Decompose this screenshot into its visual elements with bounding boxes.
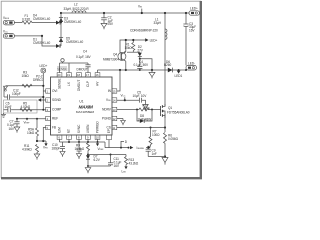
connector J1 VBUS <box>3 16 14 25</box>
FB junction row <box>37 140 46 142</box>
junction R6 bottom <box>164 155 166 157</box>
column from LED+ down <box>42 73 44 110</box>
VCC net flag (pin14) <box>121 93 126 100</box>
LED1 indicator <box>175 69 183 78</box>
svg-text:FB: FB <box>52 126 56 130</box>
svg-text:4.99kΩ: 4.99kΩ <box>22 148 32 152</box>
junction node R3 <box>42 85 44 87</box>
svg-text:33μH, 5022-220-R: 33μH, 5022-220-R <box>64 7 90 11</box>
junction C11 top <box>110 154 112 156</box>
svg-text:SYNC: SYNC <box>77 124 81 133</box>
riser pin19 <box>68 63 70 73</box>
pin boxes right (15-11) <box>112 89 117 130</box>
svg-text:43.2kΩ: 43.2kΩ <box>129 161 139 165</box>
resistor R13 <box>124 155 127 170</box>
svg-text:PGND: PGND <box>102 117 112 121</box>
diode D4 (horizontal) <box>56 21 60 25</box>
connector LED+ (mid) <box>40 64 48 73</box>
drain column wire (L1 to Q1 drain) <box>164 13 166 106</box>
junction rail dots <box>68 141 70 143</box>
REF row wire <box>17 118 46 120</box>
D-net row <box>105 140 133 150</box>
svg-text:EP: EP <box>107 129 111 133</box>
wire LED+ row (Q4 top) <box>120 40 147 53</box>
capacitor C2 <box>101 13 107 23</box>
svg-text:0.1μF, 50V: 0.1μF, 50V <box>134 63 150 67</box>
resistor R11 <box>36 144 39 154</box>
svg-text:PWRGD: PWRGD <box>96 121 100 134</box>
resistor R9 <box>87 142 90 155</box>
svg-text:CMSSH1-40: CMSSH1-40 <box>33 17 50 21</box>
svg-text:1nF: 1nF <box>152 152 157 156</box>
node column wire <box>60 13 62 46</box>
border frame <box>1 1 202 179</box>
svg-text:27V: 27V <box>137 49 143 53</box>
R3 row wire <box>6 85 44 87</box>
capacitor C11 <box>88 155 113 167</box>
resistor R7 column <box>148 128 152 150</box>
junction CS nodes <box>150 127 152 129</box>
svg-text:DMOUT: DMOUT <box>77 67 88 71</box>
IC pin labels right <box>102 89 112 130</box>
svg-text:LED1: LED1 <box>175 74 183 78</box>
capacitor C8 (pin8) <box>76 142 81 159</box>
net flag VREF (bottom) <box>96 142 104 151</box>
resistor R5 (inline) <box>20 108 32 111</box>
capacitor C12 row <box>4 87 43 100</box>
NDRV row wire <box>117 109 139 111</box>
terminal circle on sense wire <box>61 59 64 63</box>
capacitor C5 (inline) <box>139 98 145 105</box>
wire riser pin15 (IN) <box>117 70 120 91</box>
ground arrow under C7 <box>14 127 20 133</box>
junction C4 bottom <box>139 69 141 71</box>
connector LED+ (top right) <box>189 6 199 15</box>
svg-text:100pF: 100pF <box>12 92 21 96</box>
pin numbers top <box>58 73 99 77</box>
svg-text:LED-: LED- <box>188 61 195 65</box>
wire Q4 collector down <box>125 61 127 70</box>
ground arrow under C5 <box>143 104 149 110</box>
pin numbers bottom <box>59 136 100 140</box>
COMP row wire <box>4 109 46 111</box>
top rail wire <box>61 12 190 14</box>
svg-text:MMBT3904: MMBT3904 <box>103 58 119 62</box>
svg-text:NDRV: NDRV <box>102 108 112 112</box>
svg-text:L2: L2 <box>74 3 78 7</box>
diode D5 (vertical) <box>59 38 63 42</box>
junction C3 top <box>185 12 187 14</box>
capacitor C3 (electrolytic) <box>183 13 188 65</box>
junction node C12 <box>42 96 44 98</box>
svg-text:LED+: LED+ <box>150 38 158 42</box>
MOSFET Q1 <box>161 104 165 118</box>
inductor L1 (vertical on drain column) <box>165 29 167 40</box>
IC pin labels top (vertical) <box>58 79 100 91</box>
svg-text:CMSSH1-40: CMSSH1-40 <box>64 20 81 24</box>
junction node R5A <box>36 118 38 120</box>
svg-text:SENSE: SENSE <box>57 67 67 71</box>
pin1 elbow <box>43 90 45 92</box>
svg-text:16V: 16V <box>189 28 195 32</box>
wire F1 to node <box>32 22 61 24</box>
diode D6 <box>168 68 173 73</box>
svg-text:FDT55AN06LA0: FDT55AN06LA0 <box>167 110 190 114</box>
svg-text:1N4148W: 1N4148W <box>138 117 152 121</box>
svg-text:10μF, 10V: 10μF, 10V <box>133 94 148 98</box>
svg-text:16V: 16V <box>9 127 15 131</box>
svg-text:Q4: Q4 <box>113 52 117 56</box>
svg-text:CMSSH1-40: CMSSH1-40 <box>33 41 50 45</box>
EP stub <box>108 140 110 148</box>
svg-text:CDRH6SMRNP-220: CDRH6SMRNP-220 <box>130 29 158 33</box>
resistor R6 <box>164 133 167 157</box>
net flag VREF (left) <box>24 119 31 125</box>
inductor L2 <box>72 11 86 13</box>
transistor Q4 <box>118 51 126 61</box>
RC box (compensation) <box>4 100 38 113</box>
svg-text:C4: C4 <box>83 50 87 54</box>
pin numbers right <box>113 89 116 129</box>
resistor R3 <box>22 84 32 87</box>
svg-text:CMSSH1-40: CMSSH1-40 <box>66 40 83 44</box>
diode D1 (horizontal) <box>56 44 60 48</box>
capacitor C10 <box>60 142 65 157</box>
sense wire above IC <box>60 62 89 64</box>
resistor R1 <box>132 40 135 52</box>
svg-text:CS: CS <box>107 126 111 130</box>
pin boxes top (20-16) <box>57 73 100 77</box>
bottom rail wire <box>60 141 106 143</box>
svg-text:SENSE: SENSE <box>58 79 62 89</box>
svg-text:12: 12 <box>113 117 116 121</box>
pin boxes left (1-5) <box>46 89 51 130</box>
svg-text:13: 13 <box>113 108 116 112</box>
svg-text:B260: B260 <box>164 63 171 67</box>
svg-text:17: 17 <box>86 73 89 77</box>
svg-text:6.2V: 6.2V <box>94 158 101 162</box>
svg-text:ILIM: ILIM <box>58 127 62 133</box>
PGND stub + ground <box>117 119 126 126</box>
svg-text:U1: U1 <box>79 99 83 103</box>
svg-text:LED+: LED+ <box>40 64 48 68</box>
net label SENSE <box>57 67 67 71</box>
IC pin labels bottom (vertical) <box>58 121 112 134</box>
svg-text:CLP: CLP <box>86 81 90 87</box>
node at VCC corner <box>41 35 43 37</box>
svg-text:18: 18 <box>77 73 80 77</box>
diode D3 (vertical, on node column) <box>59 18 63 22</box>
pin5 elbow <box>43 128 45 142</box>
connector J2 VCC <box>3 30 14 39</box>
net stub VFB <box>43 141 48 150</box>
resistor R10 (inline) <box>139 108 149 111</box>
svg-text:REF: REF <box>52 117 58 121</box>
net flag ISENSE <box>137 146 151 150</box>
svg-text:19: 19 <box>67 73 70 77</box>
pin boxes bottom (6-10) <box>57 135 100 139</box>
ground arrow under R11 <box>34 154 40 160</box>
Q1 source column <box>164 114 166 132</box>
net stub LED+ <box>145 38 157 42</box>
svg-text:LED+: LED+ <box>190 6 198 10</box>
junction FB node <box>36 140 38 142</box>
svg-text:10kΩ: 10kΩ <box>27 131 35 135</box>
svg-text:DRBC0: DRBC0 <box>33 78 44 82</box>
svg-text:15: 15 <box>113 89 116 93</box>
zener D2 <box>138 53 142 57</box>
ground terminal left of R3 <box>4 86 8 91</box>
svg-text:20: 20 <box>58 73 61 77</box>
IC U1 body <box>51 77 113 135</box>
stubs pins 6-10 <box>59 139 61 142</box>
svg-text:25V: 25V <box>108 22 114 26</box>
diode D8 bypass <box>137 110 152 124</box>
pin EP box <box>107 135 112 140</box>
svg-text:16V: 16V <box>114 164 120 168</box>
fuse F1 (resistor) <box>22 21 32 24</box>
ground under RC box <box>1 113 6 117</box>
IN rail wire (y70) <box>98 69 187 71</box>
wire VBUS to F1 <box>14 22 22 24</box>
svg-text:MAX1858EM: MAX1858EM <box>76 110 95 114</box>
junction node C7 <box>16 118 18 120</box>
pin numbers left <box>47 89 49 129</box>
wire Q4 emitter up <box>125 40 127 52</box>
connector LED- <box>186 61 196 70</box>
svg-text:33μH: 33μH <box>154 21 162 25</box>
wire riser pin16 <box>97 70 99 73</box>
net flag VIN <box>138 5 143 15</box>
svg-text:DMOUT: DMOUT <box>77 80 81 91</box>
capacitor C4b (0.1uF 50V) <box>137 59 142 70</box>
capacitor C9 <box>146 149 165 156</box>
pin2 SGND arrow stub <box>38 98 46 101</box>
svg-text:2.2Ω: 2.2Ω <box>143 106 150 110</box>
capacitor C6 (inline) <box>8 107 11 112</box>
junction dots on diode column <box>60 21 62 23</box>
resistor R5A <box>36 119 39 141</box>
capacitor C7 <box>14 119 19 127</box>
svg-text:10kΩ: 10kΩ <box>125 46 133 50</box>
wire base row <box>127 51 140 53</box>
ground arrow under D7 <box>85 168 91 174</box>
svg-text:RT: RT <box>67 129 71 133</box>
capacitor C4a on pin17 riser <box>85 63 90 73</box>
ground arrow under R6 <box>162 158 168 165</box>
svg-text:UVEN: UVEN <box>86 124 90 133</box>
svg-text:10kΩ: 10kΩ <box>22 74 30 78</box>
VREF mid row <box>88 154 126 156</box>
svg-text:14: 14 <box>113 98 116 102</box>
svg-text:SGND: SGND <box>52 98 62 102</box>
svg-text:16.5kΩ: 16.5kΩ <box>75 147 85 151</box>
node dot C2 <box>103 12 105 14</box>
ground arrow at 152 <box>149 70 155 78</box>
IC pin labels left <box>52 89 62 130</box>
svg-text:100Ω: 100Ω <box>152 133 160 137</box>
svg-text:0.1μF, 16V: 0.1μF, 16V <box>76 55 92 59</box>
ground under C2 (arrow) <box>101 23 107 29</box>
svg-text:0.056Ω: 0.056Ω <box>168 137 179 141</box>
junction node VREF <box>26 118 28 120</box>
svg-text:16: 16 <box>96 73 99 77</box>
wire VCC to corner <box>14 36 61 46</box>
CS row wire <box>117 127 165 129</box>
VDD row wire <box>117 99 139 101</box>
svg-text:10: 10 <box>96 136 99 140</box>
wire zener to corner <box>140 57 152 70</box>
svg-text:180pF: 180pF <box>52 146 61 150</box>
zener D7 <box>86 154 90 168</box>
svg-text:COMP: COMP <box>52 108 61 112</box>
riser pin20 <box>59 63 61 73</box>
